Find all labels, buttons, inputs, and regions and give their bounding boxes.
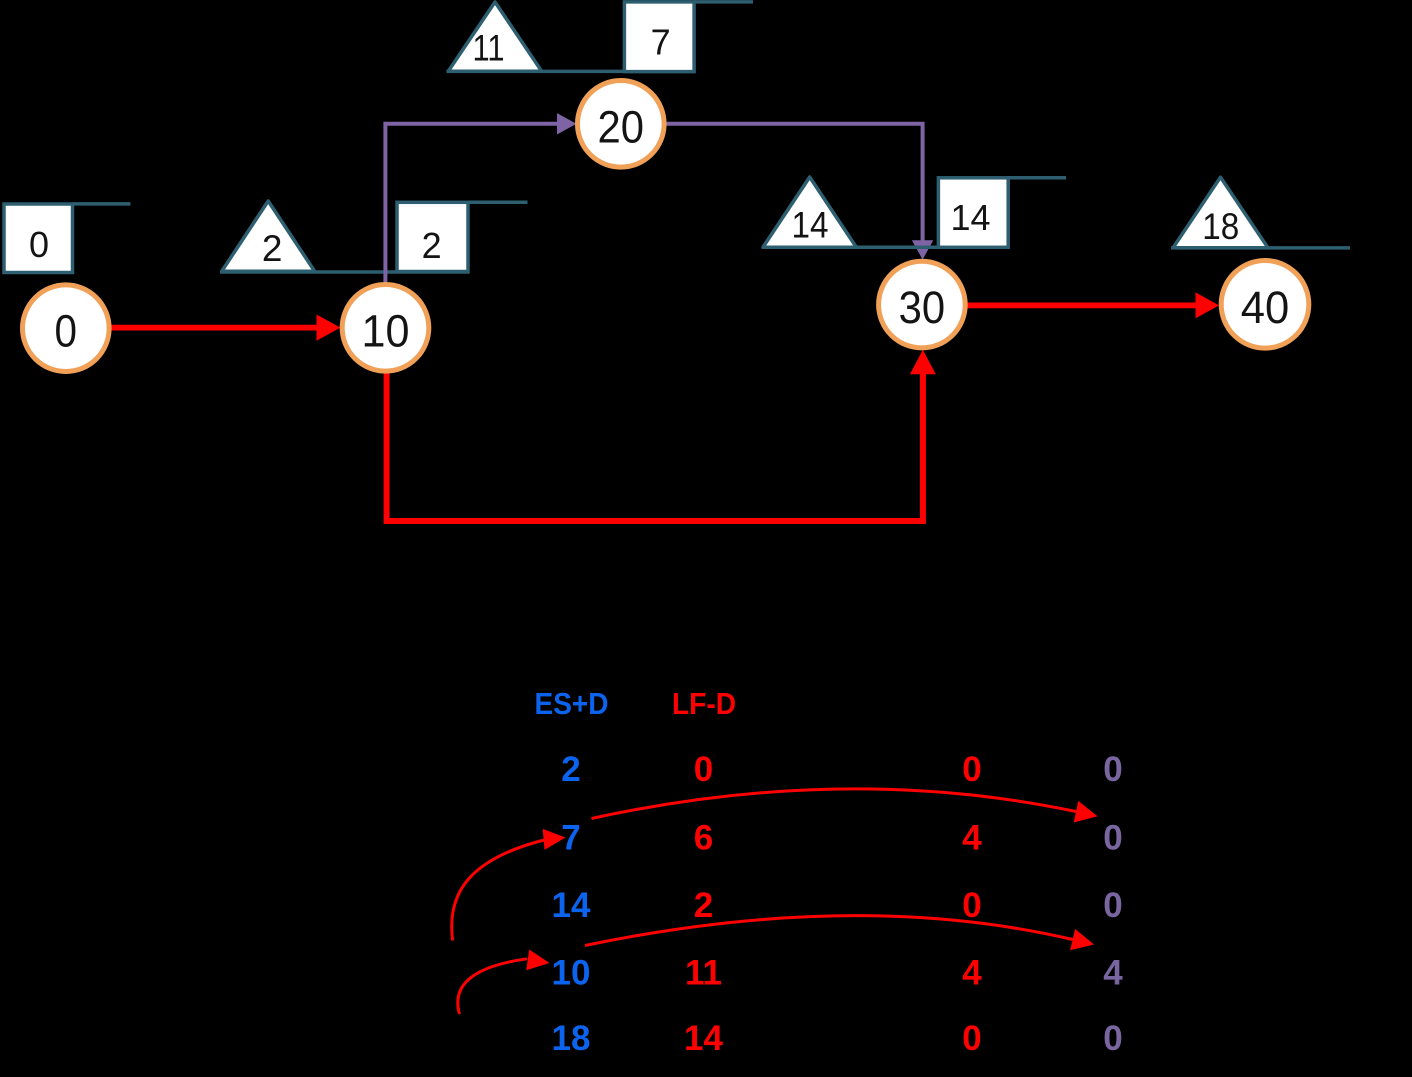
svg-text:6: 6 <box>694 819 713 858</box>
svg-text:40: 40 <box>1241 282 1290 333</box>
svg-text:2: 2 <box>262 228 283 269</box>
svg-text:2: 2 <box>694 886 713 925</box>
red short curve to 7 <box>452 829 566 941</box>
red critical elbow arrow 10 to 30 <box>387 350 936 521</box>
red long arc row2 <box>592 789 1098 823</box>
node 20 ES triangle + LF square <box>447 2 754 72</box>
purple dummy arrow 10 to 20 <box>385 113 576 284</box>
svg-text:14: 14 <box>684 1019 723 1058</box>
svg-text:0: 0 <box>694 750 713 789</box>
red long arc row4 <box>585 916 1094 951</box>
svg-text:0: 0 <box>962 1019 981 1058</box>
svg-text:0: 0 <box>1103 886 1122 925</box>
svg-text:0: 0 <box>1103 750 1122 789</box>
svg-text:0: 0 <box>29 224 49 265</box>
svg-text:11: 11 <box>685 954 722 993</box>
svg-text:14: 14 <box>950 197 990 238</box>
node 40 circle <box>1221 261 1309 349</box>
node 10 ES triangle + LF square <box>220 201 528 272</box>
svg-text:18: 18 <box>552 1019 591 1058</box>
column ES+D values <box>552 750 591 1058</box>
node 0 circle <box>23 285 110 372</box>
svg-text:10: 10 <box>552 954 591 993</box>
node 40 ES triangle <box>1171 177 1350 248</box>
purple dummy arrow 20 to 30 <box>667 124 934 260</box>
svg-text:2: 2 <box>422 225 442 266</box>
node 30 circle <box>879 261 966 348</box>
svg-text:10: 10 <box>362 305 410 356</box>
svg-text:0: 0 <box>1103 819 1122 858</box>
svg-text:0: 0 <box>962 886 981 925</box>
svg-text:4: 4 <box>962 819 982 858</box>
svg-text:20: 20 <box>598 101 645 152</box>
svg-text:7: 7 <box>651 21 671 62</box>
svg-text:0: 0 <box>55 306 78 357</box>
svg-text:4: 4 <box>1103 954 1123 993</box>
svg-text:14: 14 <box>552 886 591 925</box>
node 10 circle <box>342 285 429 372</box>
svg-text:30: 30 <box>899 282 946 333</box>
svg-text:0: 0 <box>962 750 981 789</box>
svg-text:0: 0 <box>1103 1019 1122 1058</box>
svg-text:4: 4 <box>962 954 982 993</box>
node 0 LF square <box>4 204 131 273</box>
svg-text:ES+D: ES+D <box>535 686 609 721</box>
svg-text:14: 14 <box>792 204 829 245</box>
svg-text:2: 2 <box>561 750 580 789</box>
node 30 ES triangle + LF square <box>762 177 1067 247</box>
column LF-D values <box>684 750 723 1058</box>
node 20 circle <box>578 81 665 168</box>
column 4 slack values purple <box>1103 750 1123 1058</box>
column 3 slack values red <box>962 750 982 1058</box>
red critical arrow 0 to 10 <box>111 315 341 341</box>
red short curve to 10 <box>458 950 550 1015</box>
svg-text:LF-D: LF-D <box>672 686 736 721</box>
svg-text:18: 18 <box>1202 206 1239 247</box>
red critical arrow 30 to 40 <box>968 292 1220 318</box>
svg-text:11: 11 <box>473 27 505 68</box>
